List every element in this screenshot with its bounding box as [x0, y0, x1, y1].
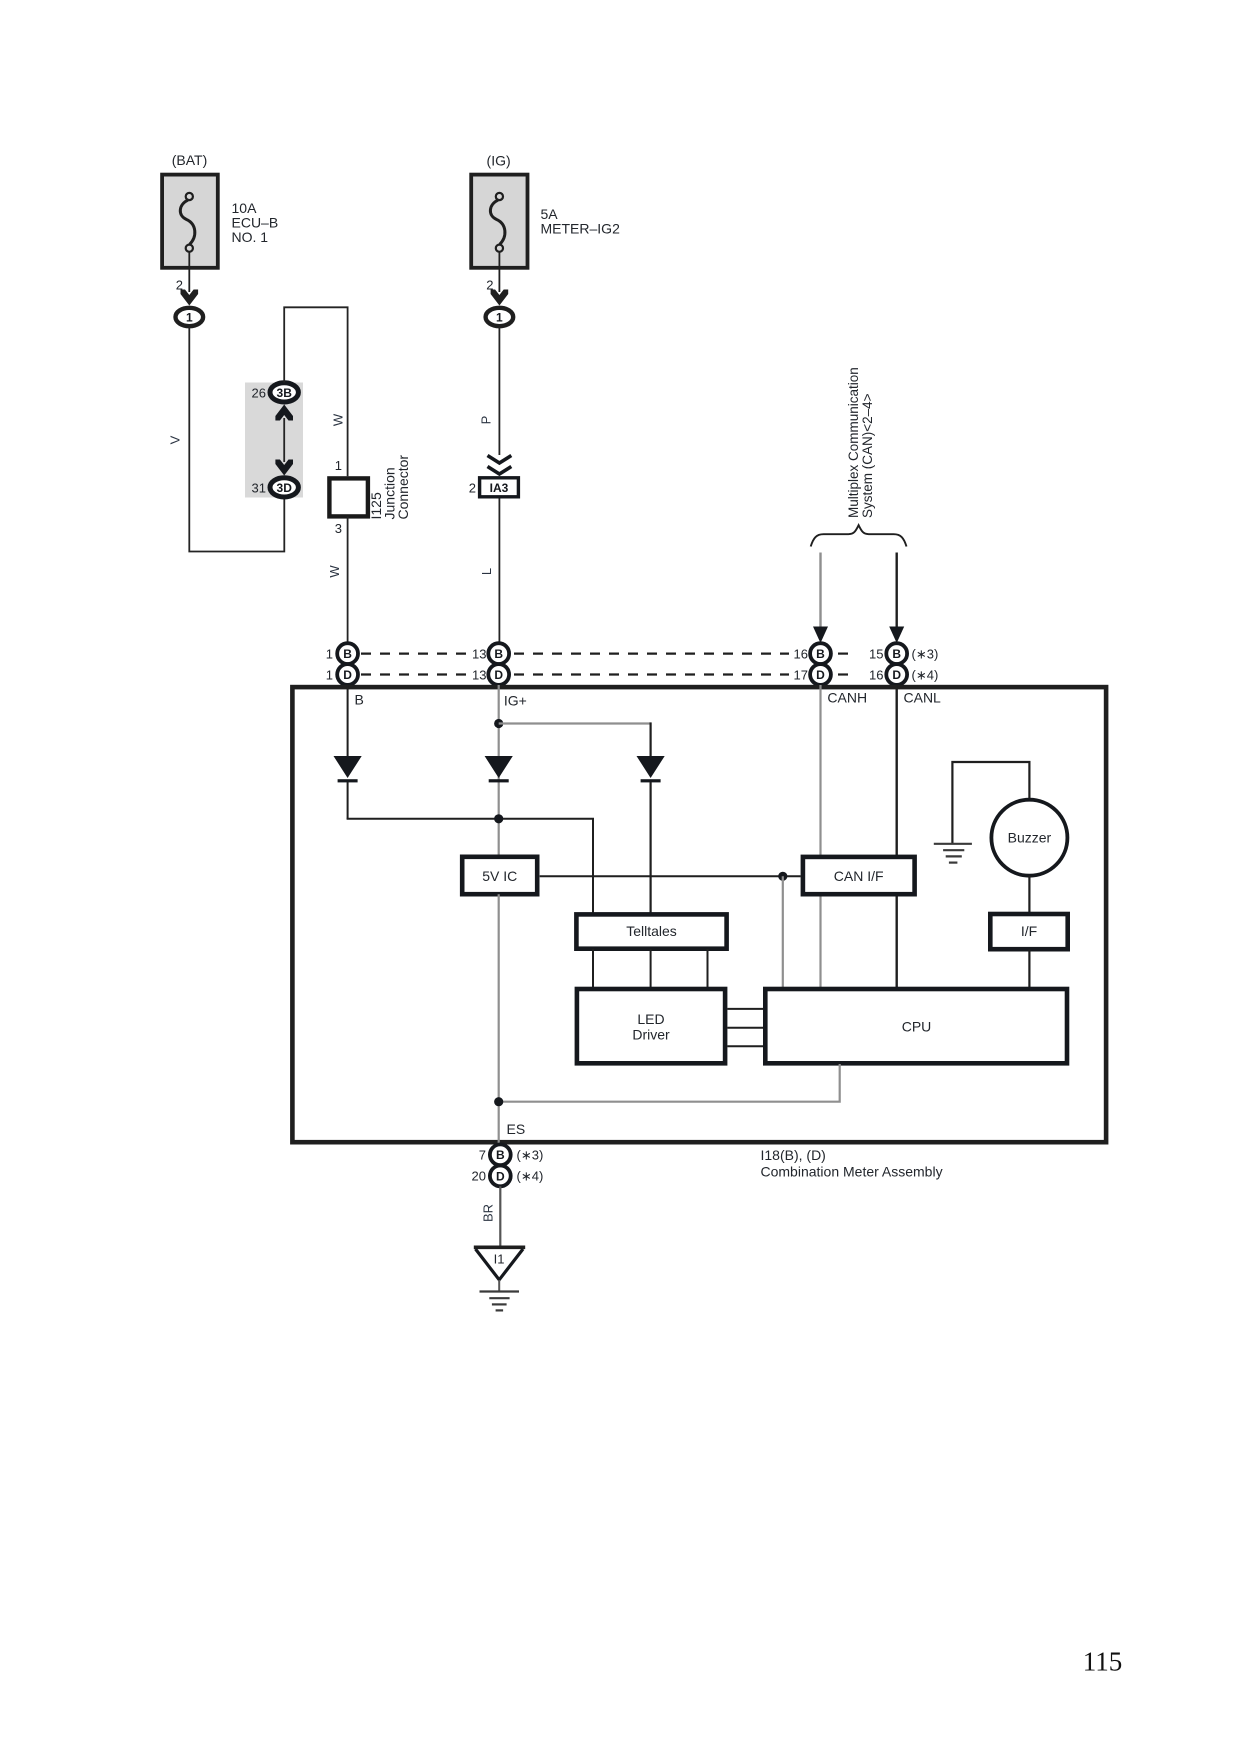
junction dot IG+ upper — [494, 719, 503, 728]
connector IA3 — [480, 478, 519, 497]
svg-text:3B: 3B — [277, 386, 293, 400]
svg-text:D: D — [494, 668, 503, 682]
wire node row to telltales branch — [347, 819, 593, 914]
wire 5V IC to CAN I/F — [540, 875, 801, 877]
connector circle 1 (IG) — [486, 308, 514, 326]
svg-text:3D: 3D — [277, 481, 293, 495]
svg-text:(BAT): (BAT) — [172, 152, 208, 168]
svg-text:31: 31 — [252, 481, 266, 496]
svg-text:Multiplex CommunicationSystem: Multiplex CommunicationSystem (CAN)<2–4> — [846, 367, 875, 518]
svg-text:13: 13 — [472, 647, 486, 662]
svg-text:Driver: Driver — [632, 1027, 670, 1043]
svg-text:W: W — [331, 413, 346, 426]
arrow into connector 1 (BAT) — [181, 290, 199, 306]
wire between 3B and 3D arrows — [283, 418, 285, 462]
svg-text:(∗4): (∗4) — [912, 667, 939, 682]
svg-text:26: 26 — [252, 386, 266, 401]
junction dot at B/IG+ node — [494, 814, 503, 823]
wire B inside meter — [347, 685, 349, 757]
diode D1 on B line — [334, 756, 362, 782]
svg-text:LED: LED — [637, 1011, 664, 1027]
svg-text:V: V — [168, 435, 183, 444]
svg-text:IA3: IA3 — [490, 481, 509, 495]
wire telltales to LED driver right — [707, 949, 709, 988]
arrow into connector 1 (IG) — [491, 290, 509, 306]
svg-text:16: 16 — [869, 667, 883, 682]
block CPU — [765, 989, 1067, 1063]
fuse F1 (BAT) 10A ECU-B NO.1 — [162, 175, 218, 268]
svg-text:D: D — [496, 1169, 505, 1183]
wire telltales to LED driver left — [592, 949, 594, 988]
wire CPU to ES node (gray) — [498, 1064, 840, 1102]
wire IG+ (gray) down to 5V IC — [498, 685, 500, 856]
svg-text:16: 16 — [794, 647, 808, 662]
ground connector triangle I1 — [474, 1247, 525, 1280]
svg-text:CANH: CANH — [827, 690, 867, 706]
svg-text:Combination Meter Assembly: Combination Meter Assembly — [761, 1164, 943, 1180]
connector circle 3B — [270, 383, 298, 402]
combination meter assembly box — [292, 687, 1106, 1142]
fuse F2 (IG) 5A METER-IG2 — [471, 175, 527, 268]
arrow down toward 3D — [275, 460, 293, 476]
block CAN I/F — [803, 857, 915, 894]
connector circle B pin13 — [488, 643, 509, 664]
wire CANL CAN I/F to CPU — [896, 895, 898, 989]
wire telltales to LED driver middle — [650, 949, 652, 988]
ground symbol near buzzer — [934, 844, 972, 863]
svg-text:Buzzer: Buzzer — [1008, 830, 1052, 846]
svg-text:5AMETER–IG2: 5AMETER–IG2 — [541, 206, 621, 237]
svg-text:3: 3 — [335, 521, 342, 536]
svg-text:ES: ES — [507, 1121, 526, 1137]
svg-text:B: B — [343, 647, 352, 661]
junction connector I125 — [329, 478, 368, 516]
svg-text:2: 2 — [469, 481, 476, 496]
block 5V IC — [462, 857, 537, 894]
connector circle D pin20 — [490, 1166, 511, 1187]
wire diode D1 to node — [347, 782, 349, 819]
wire triangle to ground hatch — [498, 1280, 500, 1291]
wire CANH from multiplex system (gray) — [819, 553, 821, 629]
arrow onto CANH pin — [813, 627, 828, 644]
svg-text:D: D — [892, 668, 901, 682]
wire IG+ below 5V IC to ES (gray) — [498, 894, 500, 1144]
svg-text:115: 115 — [1083, 1646, 1123, 1676]
junction dot ES — [494, 1097, 503, 1106]
buzzer — [991, 800, 1067, 876]
svg-text:(∗3): (∗3) — [517, 1148, 544, 1163]
svg-text:1: 1 — [326, 667, 333, 682]
block I/F — [990, 914, 1067, 949]
svg-text:I/F: I/F — [1021, 923, 1037, 939]
svg-text:5V IC: 5V IC — [482, 868, 517, 884]
svg-text:1: 1 — [186, 311, 193, 325]
svg-text:B: B — [355, 692, 364, 708]
connector circle B pin1 — [337, 643, 358, 664]
svg-text:20: 20 — [472, 1168, 486, 1183]
svg-text:P: P — [479, 416, 494, 425]
wire CANH inside meter upper (gray) — [819, 685, 821, 856]
svg-text:1: 1 — [326, 647, 333, 662]
svg-text:15: 15 — [869, 647, 883, 662]
wire BR to ground — [499, 1186, 501, 1246]
connector circle 3D — [270, 478, 298, 497]
svg-text:D: D — [343, 668, 352, 682]
dashed bus line row B — [361, 652, 856, 654]
svg-text:CPU: CPU — [902, 1019, 932, 1035]
wire fuse F2 pin2 to connector — [498, 268, 500, 292]
svg-text:CANL: CANL — [904, 690, 942, 706]
svg-text:(IG): (IG) — [487, 153, 511, 169]
junction block shading behind 3B/3D — [245, 383, 303, 498]
svg-text:17: 17 — [794, 667, 808, 682]
wire CANH CAN I/F to CPU (gray) — [819, 895, 821, 989]
svg-text:(∗4): (∗4) — [517, 1168, 544, 1183]
dashed bus line row D — [361, 673, 856, 675]
svg-text:B: B — [496, 1148, 505, 1162]
wire CANL inside meter upper — [896, 685, 898, 856]
svg-text:B: B — [816, 647, 825, 661]
wire W lower: I125 to meter pin — [347, 516, 349, 645]
connector circle B pin7 — [490, 1144, 511, 1165]
wire buzzer to ground loop — [952, 762, 1029, 844]
svg-text:L: L — [479, 568, 494, 575]
connector circle B pin15 — [886, 643, 907, 664]
bus lines LED driver to CPU — [727, 1009, 763, 1046]
wire diode D3 to telltales — [649, 782, 651, 914]
wire W: from 3B up, right, down into I125 — [284, 307, 347, 476]
svg-text:1: 1 — [496, 311, 503, 325]
svg-text:I18(B), (D): I18(B), (D) — [761, 1147, 826, 1163]
double chevron into IA3 — [488, 456, 512, 464]
wire fuse F1 pin2 to connector — [188, 268, 190, 292]
wire I/F to CPU — [1028, 950, 1030, 989]
ground symbol I1 — [480, 1292, 520, 1311]
connector circle D pin1 — [337, 664, 358, 685]
svg-text:CAN I/F: CAN I/F — [834, 868, 884, 884]
svg-text:I125JunctionConnector: I125JunctionConnector — [368, 455, 411, 520]
diode D2 on IG+ line — [485, 756, 513, 782]
wire P — [498, 326, 500, 455]
svg-text:B: B — [494, 647, 503, 661]
block Telltales — [576, 914, 726, 948]
svg-text:13: 13 — [472, 667, 486, 682]
connector circle D pin16 — [886, 664, 907, 685]
wire buzzer to I/F — [1028, 876, 1030, 914]
connector circle 1 (BAT) — [176, 308, 204, 326]
svg-text:IG+: IG+ — [504, 693, 527, 709]
connector circle B pin16 — [810, 643, 831, 664]
diode D3 — [637, 756, 665, 782]
wire IG+ branch to diode D3 (gray horizontal) — [499, 722, 651, 724]
svg-text:B: B — [892, 647, 901, 661]
connector circle D pin17 — [810, 664, 831, 685]
junction dot on 5V line — [778, 872, 787, 881]
svg-text:1: 1 — [335, 458, 342, 473]
svg-text:D: D — [816, 668, 825, 682]
arrow onto CANL pin — [889, 627, 904, 644]
wire V: from circle 1 down, right, up to 3D — [189, 326, 284, 551]
svg-text:I1: I1 — [494, 1252, 505, 1267]
svg-text:Telltales: Telltales — [626, 923, 677, 939]
svg-text:7: 7 — [479, 1148, 486, 1163]
block LED Driver — [577, 989, 725, 1063]
svg-text:10AECU–BNO. 1: 10AECU–BNO. 1 — [232, 200, 279, 245]
svg-text:BR: BR — [481, 1204, 496, 1222]
connector circle D pin13 — [488, 664, 509, 685]
svg-text:W: W — [327, 565, 342, 578]
arrow up toward 3B — [275, 405, 293, 421]
wire branch down to diode D3 — [649, 722, 651, 757]
wire 5V branch down to CPU (gray) — [782, 876, 784, 988]
svg-text:(∗3): (∗3) — [912, 647, 939, 662]
wire L — [498, 499, 500, 646]
wire CANL from multiplex system — [896, 553, 898, 629]
brace over CAN lines — [811, 525, 907, 546]
